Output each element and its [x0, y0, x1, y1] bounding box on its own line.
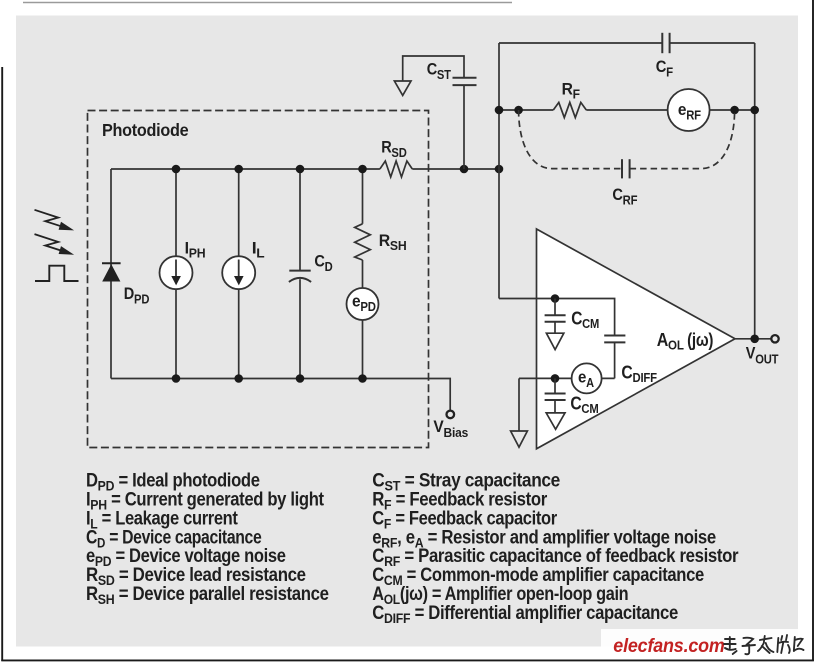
- watermark chinese characters: [724, 635, 804, 654]
- noise source e_PD: [347, 288, 379, 379]
- node R_F branch left: [495, 106, 504, 115]
- op-amp A_OL triangle: [537, 229, 736, 449]
- node non-inverting input: [551, 374, 560, 383]
- wire: non-inverting row: [519, 377, 615, 379]
- bottom page border: [1, 659, 814, 661]
- capacitor C_DIFF: [604, 336, 625, 379]
- wire: inverting input into op-amp: [499, 299, 615, 336]
- wire: output: [735, 338, 771, 340]
- node bottom rail / I_L: [234, 374, 243, 383]
- left page border: [1, 67, 3, 661]
- light arrow 1: [35, 210, 75, 231]
- wire: inverting input vertical: [498, 43, 500, 299]
- dashed wire C_RF right: [630, 110, 735, 169]
- capacitor C_ST: [403, 56, 477, 169]
- capacitor C_CM bottom: [545, 378, 566, 413]
- wire: R_SD to summing node: [412, 168, 499, 170]
- svg-text:CDIFF = Differential amplifier: CDIFF = Differential amplifier capacitan…: [372, 602, 678, 626]
- capacitor C_RF: [622, 159, 630, 178]
- wire: right feedback vertical: [754, 43, 756, 339]
- dashed wire C_RF left: [519, 110, 622, 169]
- node R_SD out / C_ST: [460, 165, 469, 174]
- node feedback right: [750, 106, 759, 115]
- wire: R_F to e_RF: [586, 109, 667, 111]
- light arrow 2: [35, 234, 75, 255]
- top rule line: [23, 2, 512, 4]
- noise source e_RF: [668, 89, 710, 131]
- resistor R_F: [553, 102, 586, 117]
- ground left of op-amp: [511, 431, 528, 447]
- resistor R_SH: [355, 169, 371, 288]
- photodiode D_PD symbol: [102, 263, 121, 281]
- wire: photodiode bottom rail to V_Bias: [111, 379, 450, 411]
- node C_RF left: [514, 106, 523, 115]
- wire: R_F row left: [499, 109, 553, 111]
- capacitor C_F: [662, 33, 669, 53]
- svg-text:Photodiode: Photodiode: [102, 121, 188, 141]
- node inverting input: [551, 294, 560, 303]
- svg-text:(jω): (jω): [687, 330, 713, 351]
- node bottom rail / I_PH: [172, 374, 181, 383]
- terminal V_Bias: [447, 411, 455, 419]
- ground for C_CM top: [546, 333, 563, 349]
- node top rail / I_L: [234, 165, 243, 174]
- capacitor C_D: [289, 169, 311, 379]
- current source I_PH: [160, 169, 193, 379]
- node top rail / C_D: [296, 165, 305, 174]
- capacitor C_CM top: [545, 299, 566, 334]
- right page border: [812, 0, 814, 661]
- wire: top feedback: [499, 42, 755, 44]
- watermark box: [601, 629, 798, 647]
- node output: [750, 335, 759, 344]
- terminal V_OUT: [771, 335, 778, 342]
- svg-text:RSH = Device parallel resistan: RSH = Device parallel resistance: [86, 583, 329, 607]
- svg-text:elecfans.com: elecfans.com: [613, 634, 724, 656]
- node bottom rail / e_PD: [358, 374, 367, 383]
- wire: e_RF to output branch: [710, 109, 755, 111]
- photodiode dashed box: [88, 111, 429, 448]
- ground for C_CM bottom: [546, 413, 565, 429]
- resistor R_SD: [380, 161, 412, 177]
- light pulse symbol: [35, 266, 79, 281]
- node top rail / I_PH: [172, 165, 181, 174]
- node summing input: [495, 165, 504, 174]
- wire: photodiode top rail: [111, 168, 380, 170]
- wire: D_PD branch: [110, 169, 112, 379]
- node top rail / R_SH: [358, 165, 367, 174]
- wire: non-inverting to ground: [518, 378, 520, 431]
- ground for C_ST: [394, 81, 411, 95]
- node C_RF right: [730, 106, 739, 115]
- noise source e_A: [572, 363, 602, 393]
- node bottom rail / C_D: [296, 374, 305, 383]
- current source I_L: [222, 169, 255, 379]
